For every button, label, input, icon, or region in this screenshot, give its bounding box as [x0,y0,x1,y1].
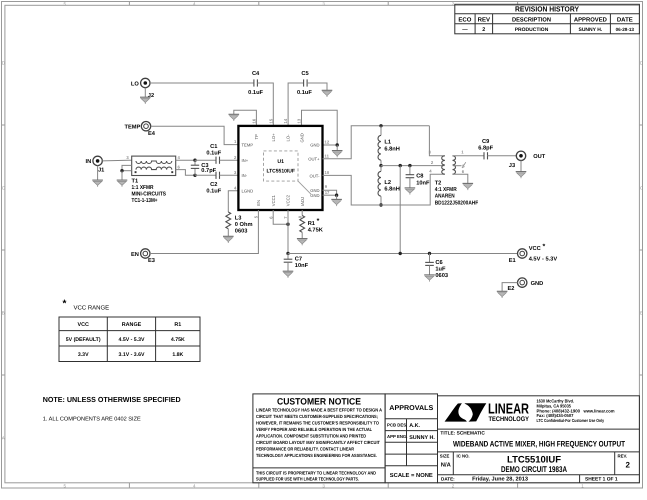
svg-text:PCB DES.: PCB DES. [387,422,407,427]
svg-text:GND: GND [310,193,319,198]
svg-text:—: — [462,27,468,33]
wire T1 pin 1 to ground net [122,165,132,170]
svg-text:4.5V - 5.3V: 4.5V - 5.3V [119,337,145,343]
svg-text:OUT+: OUT+ [308,157,320,162]
wire EN net to pin 5 [150,210,258,254]
svg-text:LO: LO [131,81,139,87]
svg-text:TP: TP [254,134,259,140]
svg-text:APP ENG.: APP ENG. [387,434,407,439]
svg-text:C5: C5 [301,71,308,77]
svg-text:Friday, June 28, 2013: Friday, June 28, 2013 [472,476,528,483]
svg-text:1:1 XFMR: 1:1 XFMR [132,185,154,191]
wire T2 pin 6 to ground [453,174,468,183]
ground at E2 [497,291,508,298]
inductor L2 6.8nH [378,166,400,205]
ground at R1 [297,232,308,245]
inductor L3 0 Ohm 0603 [226,212,253,235]
svg-text:VCC: VCC [529,246,541,252]
svg-text:J2: J2 [148,93,154,99]
svg-text:C2: C2 [210,182,217,188]
svg-text:TEMP: TEMP [124,125,140,131]
transformer T1 1:1 XFMR MINI-CIRCUITS TC1-1-13M+ [132,156,176,204]
svg-text:PERFORMANCE OR RELIABILITY.: PERFORMANCE OR RELIABILITY. CONTACT LINE… [256,447,355,452]
capacitor C8 10nF [406,166,430,188]
svg-text:10nF: 10nF [295,263,309,269]
svg-text:DATE: DATE [617,16,633,23]
svg-text:E4: E4 [148,131,156,137]
wire mid node to T2 pin 2 [381,165,445,167]
svg-text:C4: C4 [252,71,260,77]
svg-text:TITLE: SCHEMATIC: TITLE: SCHEMATIC [440,431,485,437]
wire C5 to ground [307,83,327,90]
svg-text:4:1 XFMR: 4:1 XFMR [435,187,457,193]
capacitor C2 0.1uF [206,172,221,195]
svg-text:N/A: N/A [441,462,452,469]
svg-text:E1: E1 [509,258,516,264]
wire T1 pin 5 to ground net [122,170,132,172]
svg-text:GND: GND [310,143,319,148]
junction node A (C3 top) [193,159,196,162]
svg-text:6.8pF: 6.8pF [478,146,493,152]
svg-text:IN-: IN- [242,173,248,178]
ground at C6 [424,275,435,282]
wire pin 17 [323,194,337,196]
svg-text:TECHNOLOGY APPLICATIONS ENGINE: TECHNOLOGY APPLICATIONS ENGINEERING FOR … [256,453,377,458]
wire C1 to pin 2 IN+ [220,159,239,161]
svg-text:PRODUCTION: PRODUCTION [515,27,549,33]
svg-text:16: 16 [251,118,256,123]
connector J2 (LO) [131,78,154,99]
svg-text:SCALE = NONE: SCALE = NONE [390,472,433,479]
svg-text:SUPPLIED FOR USE WITH LINEAR T: SUPPLIED FOR USE WITH LINEAR TECHNOLOGY … [256,477,359,482]
svg-text:T1: T1 [132,178,139,184]
svg-text:WIDEBAND ACTIVE MIXER, HIGH FR: WIDEBAND ACTIVE MIXER, HIGH FREQUENCY OU… [453,439,625,448]
svg-text:2: 2 [626,461,631,470]
svg-text:0603: 0603 [235,229,248,235]
svg-text:1.8K: 1.8K [172,352,183,358]
wire pin 10 OUT- to T2 pin 4 [323,174,445,205]
svg-text:12: 12 [325,140,330,145]
svg-text:0.1uF: 0.1uF [206,189,221,195]
ground at L3 [223,229,234,243]
svg-text:0.1uF: 0.1uF [297,90,312,96]
svg-text:3.1V - 3.6V: 3.1V - 3.6V [119,352,145,358]
svg-text:0603: 0603 [435,273,448,279]
junction T1 ground [120,169,123,172]
svg-text:L1: L1 [384,140,391,146]
svg-text:4.75K: 4.75K [171,337,185,343]
svg-text:B: B [2,311,5,316]
svg-text:VCC1: VCC1 [271,194,276,206]
svg-text:APPROVALS: APPROVALS [389,405,433,412]
svg-text:C7: C7 [295,256,302,262]
svg-text:VCC2: VCC2 [286,194,291,206]
pin 5 of T2 (no connect, struck) [453,162,466,168]
connector E2 (GND) [508,278,544,292]
connector J3 (OUT) [509,151,546,169]
connector E3 (EN) [131,249,155,264]
svg-text:4.5V - 5.3V: 4.5V - 5.3V [529,256,558,262]
svg-text:LTC5510IUF: LTC5510IUF [266,169,295,175]
ground at pin 9/17 [331,195,342,206]
svg-text:CUSTOMER NOTICE: CUSTOMER NOTICE [277,397,361,407]
ground at C8 [405,188,416,195]
svg-text:0.7pF: 0.7pF [201,168,216,174]
wire C9 to J3 [488,155,517,157]
svg-text:www.linear.com: www.linear.com [583,408,615,413]
svg-text:IC NO.: IC NO. [457,453,470,458]
svg-text:0.1uF: 0.1uF [248,90,263,96]
svg-text:1uF: 1uF [435,267,446,273]
svg-text:3.3V: 3.3V [78,352,89,358]
svg-text:10: 10 [325,170,330,175]
capacitor C5 0.1uF [297,71,312,96]
transformer T2 4:1 XFMR ANAREN BD1222J50200AHF [435,156,479,207]
svg-text:REV: REV [478,16,490,23]
svg-text:T2: T2 [435,180,442,186]
svg-text:SIZE: SIZE [440,453,450,458]
svg-text:HOWEVER, IT REMAINS THE CUSTOM: HOWEVER, IT REMAINS THE CUSTOMER'S RESPO… [256,421,379,426]
svg-text:EN: EN [131,252,139,258]
svg-text:GND: GND [531,281,544,287]
svg-text:E3: E3 [148,258,155,264]
wire T2 pin 1 to C9 [453,155,484,157]
ground at T1 [117,171,128,187]
svg-text:REV.: REV. [618,453,628,458]
ground at C5 [322,90,333,97]
wire E4 to pin 1 TEMP [151,126,239,144]
svg-text:IADJ: IADJ [300,197,305,206]
svg-text:EN: EN [256,200,261,206]
wire T1 pin 6 to node B [176,170,195,176]
wire pin 9 [323,190,337,195]
wire pin 14 to C5 [288,83,304,126]
svg-text:VCC RANGE: VCC RANGE [74,305,110,312]
junction node B (C3 bottom) [193,174,196,177]
svg-text:4.75K: 4.75K [308,227,324,233]
op-amp U1 LTC5510IUF (mixer IC) [238,126,322,210]
svg-text:2: 2 [482,27,485,33]
svg-text:1. ALL COMPONENTS ARE 0402 SI: 1. ALL COMPONENTS ARE 0402 SIZE [43,416,141,422]
svg-text:0.1uF: 0.1uF [206,151,221,157]
svg-text:LGND: LGND [242,189,254,194]
svg-text:APPROVED: APPROVED [574,16,608,23]
svg-text:DATE:: DATE: [441,477,455,482]
junction C6 at rail [428,252,431,255]
svg-text:L3: L3 [235,215,242,221]
wire bias feed down to VCC rail [399,166,401,254]
capacitor C3 0.7pF [191,160,217,175]
svg-text:U1: U1 [277,159,284,165]
svg-text:L2: L2 [384,180,391,186]
capacitor C1 0.1uF [206,144,221,164]
svg-text:*: * [317,218,320,225]
svg-text:TEMP: TEMP [242,143,254,148]
svg-text:06-28-13: 06-28-13 [616,27,635,32]
capacitor C6 1uF 0603 [425,254,448,280]
capacitor C4 0.1uF [248,71,263,96]
wire pin 13 to pin 12 gnd net [302,110,338,145]
wire E2 to ground [502,283,517,292]
svg-text:IN+: IN+ [242,158,249,163]
junction C8 top [408,164,411,167]
junction pin12 gnd [336,143,339,146]
svg-text:VCC: VCC [78,322,89,328]
junction L2 bottom [379,203,382,206]
wire pin 11 OUT+ to top rail [323,126,430,159]
svg-text:ANAREN: ANAREN [435,194,455,200]
connector E1 (VCC) [509,243,558,264]
svg-text:C9: C9 [482,139,489,145]
svg-text:6.8nH: 6.8nH [384,187,400,193]
svg-text:THIS CIRCUIT IS PROPRIETARY TO: THIS CIRCUIT IS PROPRIETARY TO LINEAR TE… [256,470,377,475]
wire pin 12 stub [323,144,338,146]
svg-text:5V (DEFAULT): 5V (DEFAULT) [66,337,101,343]
svg-text:0 Ohm: 0 Ohm [235,221,253,228]
svg-text:OUT-: OUT- [309,173,320,178]
svg-text:GND: GND [300,133,305,142]
svg-text:BD1222J50200AHF: BD1222J50200AHF [435,200,479,206]
svg-text:*: * [543,243,546,250]
ground at pin 12 [332,145,343,157]
wire T1 pin 4 to node A [176,159,195,161]
svg-text:R1: R1 [174,322,181,328]
svg-text:10nF: 10nF [416,180,430,186]
connector J1 (IN) [86,156,105,173]
svg-text:A: A [2,436,5,441]
svg-text:15: 15 [268,118,273,123]
svg-text:CIRCUIT BOARD LAYOUT MAY SIGNI: CIRCUIT BOARD LAYOUT MAY SIGNIFICANTLY A… [256,440,380,445]
svg-text:C1: C1 [210,144,217,150]
inductor L1 6.8nH [378,126,400,166]
resistor R1 4.75K [300,210,324,233]
junction bias at rail [399,252,402,255]
svg-text:LO+: LO+ [271,133,276,142]
wire node B to C2 [195,174,216,176]
svg-text:RANGE: RANGE [122,322,142,328]
LT logo [445,403,487,421]
svg-text:LO-: LO- [286,134,291,142]
svg-text:OUT: OUT [533,154,546,160]
svg-text:LINEAR: LINEAR [488,401,529,417]
wire pin 6 VCC1 [273,210,288,224]
junction L1 top [379,124,382,127]
svg-text:LINEAR TECHNOLOGY HAS MADE A B: LINEAR TECHNOLOGY HAS MADE A BEST EFFORT… [256,408,383,413]
wire C2 to pin 3 IN- [220,174,239,176]
svg-text:J3: J3 [509,163,515,169]
junction VCC2 at rail [286,252,289,255]
wire pin 4 LGND to L3 [228,191,238,212]
svg-text:VERIFY PROPER AND RELIABLE OPE: VERIFY PROPER AND RELIABLE OPERATION IN … [256,427,372,432]
wire J2 to C4 [150,82,254,84]
svg-text:IN: IN [86,159,92,165]
ground at TP [229,114,240,121]
svg-text:TC1-1-13M+: TC1-1-13M+ [132,198,159,204]
svg-text:SUNNY H.: SUNNY H. [409,435,435,441]
wire J1 to T1 pin 3 [102,159,131,162]
svg-text:E2: E2 [508,286,515,292]
wire pin 16 TP to ground [234,110,257,126]
svg-text:REVISION HISTORY: REVISION HISTORY [515,5,579,14]
wire node A to C1 [195,159,216,161]
svg-text:B: B [640,311,643,316]
VCC rail wire [288,253,518,255]
svg-text:6.8nH: 6.8nH [384,146,400,152]
svg-text:NOTE: UNLESS OTHERWISE SPECIFI: NOTE: UNLESS OTHERWISE SPECIFIED [43,395,181,404]
junction L1 bottom / mid node [379,164,382,167]
ground below J2 [140,88,151,104]
wire C4 to pin 15 [257,83,273,126]
ground at C7 [283,271,294,278]
wire pin 7 VCC2 down [287,210,289,254]
wire down to T2 pin 3 [429,126,444,156]
junction VCC1/VCC2 [286,223,289,226]
ground at T2 [463,183,474,190]
capacitor C7 10nF [284,254,309,272]
svg-text:SHEET 1 OF 1: SHEET 1 OF 1 [585,477,618,483]
capacitor C9 6.8pF [478,139,493,159]
svg-text:TECHNOLOGY: TECHNOLOGY [489,416,530,423]
svg-text:LTC Confidential-For Customer: LTC Confidential-For Customer Use Only [537,418,605,423]
ground below J1 [92,166,103,187]
svg-text:DESCRIPTION: DESCRIPTION [512,16,551,23]
svg-text:APPLICATION. COMPONENT SUBSTI: APPLICATION. COMPONENT SUBSTITUTION AND … [256,434,367,439]
svg-text:R1: R1 [308,221,315,227]
ground below J3 [516,161,527,179]
svg-text:*: * [63,299,67,310]
junction pin9/17 [335,194,338,197]
svg-text:C8: C8 [416,174,423,180]
svg-text:ECO: ECO [458,16,471,23]
connector E4 (TEMP) [124,122,155,137]
svg-text:DEMO CIRCUIT 1983A: DEMO CIRCUIT 1983A [501,464,567,474]
svg-text:11: 11 [325,153,330,158]
svg-text:A.K.: A.K. [409,423,420,429]
svg-text:14: 14 [283,118,288,123]
svg-text:MINI-CIRCUITS: MINI-CIRCUITS [132,192,167,198]
svg-text:SUNNY H.: SUNNY H. [578,27,602,33]
junction bias feed [399,164,402,167]
svg-text:CIRCUIT THAT MEETS CUSTOMER-SU: CIRCUIT THAT MEETS CUSTOMER-SUPPLIED SPE… [256,414,378,419]
svg-text:13: 13 [297,118,302,123]
svg-text:C6: C6 [435,260,442,266]
svg-text:J1: J1 [98,167,104,173]
